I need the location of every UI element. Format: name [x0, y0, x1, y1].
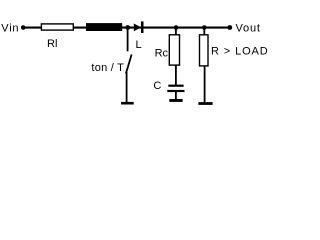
- svg-text:Vin: Vin: [1, 23, 19, 35]
- switch bottom terminal bar: [121, 102, 134, 105]
- svg-text:L: L: [136, 39, 142, 51]
- capacitor C bottom plate: [167, 90, 184, 92]
- capacitor C top plate: [168, 85, 183, 87]
- svg-text:ton / T: ton / T: [91, 62, 124, 74]
- diode D anode triangle: [134, 24, 141, 32]
- node Vout terminal: [227, 25, 232, 30]
- node R load junction: [202, 25, 207, 30]
- resistor R load: [200, 35, 209, 66]
- node Vin terminal: [21, 25, 26, 30]
- node Rc junction: [174, 25, 179, 30]
- node switch junction: [125, 25, 130, 30]
- resistor Rc: [169, 35, 179, 65]
- resistor Rl: [41, 24, 73, 30]
- svg-text:Vout: Vout: [236, 23, 261, 35]
- switch blade ton/T: [126, 55, 132, 74]
- wire R lower: [204, 66, 206, 103]
- svg-text:C: C: [153, 80, 161, 92]
- svg-text:R > LOAD: R > LOAD: [211, 46, 269, 58]
- wire switch upper: [127, 28, 129, 52]
- inductor L (solid bar): [86, 23, 122, 31]
- wire capacitor lower stub: [175, 92, 177, 99]
- R bottom terminal bar: [198, 102, 212, 105]
- diode D cathode bar: [141, 21, 144, 33]
- wire main horizontal: [23, 27, 230, 29]
- svg-text:Rl: Rl: [47, 38, 57, 50]
- wire R upper stub: [203, 28, 205, 35]
- svg-text:Rc: Rc: [155, 48, 169, 60]
- wire Rc upper stub: [175, 28, 177, 35]
- wire Rc to capacitor: [175, 65, 177, 85]
- wire switch lower: [126, 72, 128, 102]
- capacitor bottom terminal bar: [169, 99, 182, 102]
